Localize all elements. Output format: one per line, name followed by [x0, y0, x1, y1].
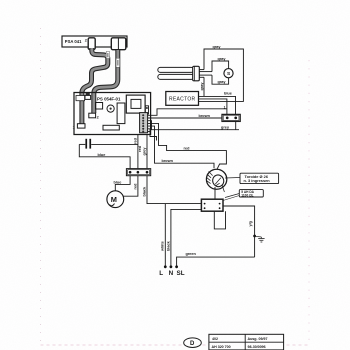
wire reactor to terminal block (blue)	[199, 92, 236, 115]
starter S	[224, 69, 233, 78]
wire brown PCB to toroid	[148, 126, 215, 168]
motor M	[107, 191, 124, 208]
reactor box	[166, 92, 199, 106]
wire starter loop bottom	[212, 75, 229, 84]
wire blue capacitor to motor block	[79, 144, 130, 168]
PCB trimmer circle	[107, 105, 114, 112]
ground symbol	[255, 236, 265, 242]
lamp pin wires	[199, 70, 212, 78]
label 2 (plug 2)	[85, 39, 87, 43]
wire green SL to ground	[177, 252, 255, 266]
PCB component rect A	[96, 103, 103, 110]
motor terminal block X2 (3 pole)	[126, 169, 150, 176]
wire blue block to motor	[114, 176, 131, 191]
wire black block to relay	[143, 176, 202, 204]
wire red PCB down to motor block	[133, 135, 142, 169]
PCB board PS 054F-01	[74, 93, 151, 135]
plug P1 on PSA 041	[111, 38, 126, 50]
cable from plug 1 to PCB (thick)	[94, 50, 118, 113]
page border right dotted	[308, 60, 310, 345]
wire PCB pin1 to block via reactor node	[148, 109, 227, 116]
connector 1 at end of cable 2 inside PCB	[73, 96, 85, 130]
label box 5 AH DA	[223, 190, 263, 201]
wire lamp pin4 down to reactor node (gray)	[200, 77, 204, 96]
page border bottom dashed	[41, 344, 311, 346]
plug P2 on PSA 041	[88, 38, 95, 50]
terminal labels L N SL	[159, 270, 184, 277]
PCB relay rect	[117, 103, 125, 124]
wire grey PCB to block bottom	[148, 121, 240, 130]
toroid filter	[206, 169, 226, 189]
wire lamp loop top (gray)	[199, 45, 244, 101]
PCB edge connector J1	[140, 113, 148, 133]
lamp base	[193, 66, 200, 81]
wire red PCB to toroid	[148, 123, 227, 168]
wire U loop below relay	[214, 211, 225, 229]
capacitor C1	[79, 139, 138, 149]
short stub cable on PCB	[85, 93, 91, 99]
ground junction dot	[253, 235, 256, 238]
cable label chip on cable 2	[106, 52, 109, 59]
relay box K1	[201, 199, 223, 211]
PCB bottom rect	[103, 125, 119, 130]
terminal dots L N SL	[164, 265, 178, 268]
cable label chip on cable 1	[116, 58, 120, 67]
wire white L to relay	[161, 204, 166, 267]
connector box PSA 041	[62, 36, 127, 47]
page border left dotted	[40, 28, 42, 345]
wire reactor mid to terminal block pin1	[199, 99, 227, 115]
PCB pin stubs	[148, 129, 157, 141]
cable from plug 2 to PCB (thick)	[82, 48, 108, 124]
PCB small part near right edge	[145, 106, 148, 114]
title block table	[209, 334, 284, 350]
label 1 (plug 1)	[124, 38, 126, 42]
PCB IC square U1	[126, 95, 145, 113]
wire starter loop top	[212, 57, 229, 72]
wire red block to motor	[124, 176, 138, 196]
title block D ellipse	[184, 338, 202, 348]
label box Toroide	[225, 173, 279, 183]
lamp tube 2	[158, 74, 194, 79]
mains terminal block X1 (2 pole)	[222, 114, 240, 121]
wire black N to relay	[166, 209, 201, 266]
wire grey PCB down to motor block	[143, 135, 147, 169]
connector 2 at end of cable 1 inside PCB	[89, 113, 99, 119]
wire relay to ground (y/g)	[223, 206, 255, 257]
wire toroid to relay	[215, 185, 224, 199]
wire brown PCB to block	[148, 114, 223, 118]
lamp tube 1	[158, 67, 194, 72]
